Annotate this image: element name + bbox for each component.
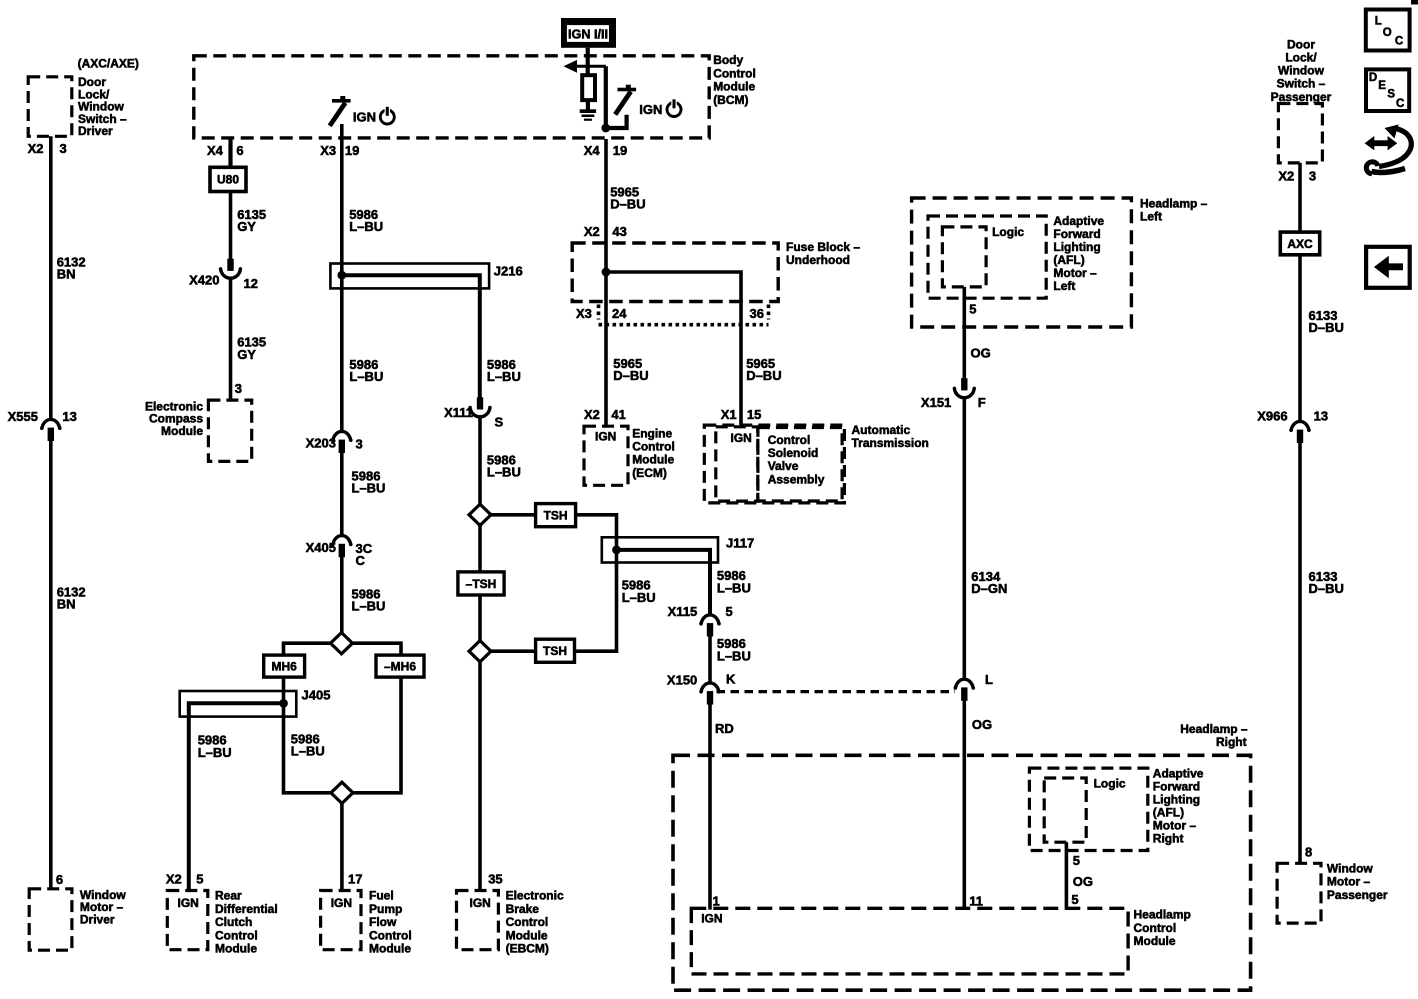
bus J117 tap to X115	[612, 546, 710, 614]
svg-text:IGN: IGN	[331, 896, 352, 910]
svg-text:Passenger: Passenger	[1327, 888, 1388, 902]
pin label X4 19	[584, 143, 628, 158]
label 5965 D-BU (above fuse block)	[610, 184, 645, 211]
label Electronic Brake Control Module (EBCM)	[506, 889, 564, 956]
label Fuse Block - Underhood	[786, 240, 860, 267]
svg-text:L–BU: L–BU	[352, 481, 386, 496]
pin label 5 (HCM)	[1071, 892, 1078, 907]
svg-text:D: D	[1369, 72, 1377, 84]
svg-text:D–BU: D–BU	[1309, 320, 1344, 335]
label Adaptive Forward Lighting (AFL) Motor - Right	[1153, 766, 1204, 845]
svg-text:GY: GY	[237, 219, 256, 234]
wire segment through J216	[340, 264, 344, 289]
module AFL Motor - Left dashed box	[928, 216, 1046, 298]
svg-text:(AFL): (AFL)	[1153, 805, 1184, 819]
pin label 35 (EBCM)	[488, 871, 502, 886]
label 6132 BN (lower)	[57, 585, 86, 612]
svg-text:Module: Module	[1134, 934, 1176, 948]
icon back arrow button	[1366, 247, 1410, 288]
label Rear Differential Clutch Control Module	[215, 889, 278, 956]
svg-text:Automatic: Automatic	[852, 423, 911, 437]
label 5965 D-BU (to ECM)	[613, 356, 648, 383]
wire 6132 BN driver switch to window motor driver	[49, 136, 53, 889]
junction dot X4:19 output	[601, 124, 610, 133]
module Headlamp Control Module dashed box with IGN	[691, 908, 1128, 974]
svg-text:Fuel: Fuel	[369, 889, 394, 903]
svg-text:D–BU: D–BU	[613, 368, 648, 383]
svg-text:11: 11	[969, 893, 983, 908]
label OG (above X151)	[971, 346, 991, 361]
svg-text:(AFL): (AFL)	[1053, 253, 1084, 267]
ground symbol in BCM	[580, 109, 596, 121]
wire through J117	[615, 537, 619, 562]
svg-text:5: 5	[969, 301, 976, 316]
label 6135 GY (lower)	[237, 335, 266, 362]
svg-text:J216: J216	[494, 264, 523, 279]
svg-text:Clutch: Clutch	[215, 915, 252, 929]
wire MH6 branch right	[353, 643, 402, 655]
svg-text:Module: Module	[369, 942, 411, 956]
bus J405 tap to rear diff clutch module	[189, 699, 288, 891]
option box -TSH	[458, 572, 504, 595]
connector X966 pin 13	[1257, 409, 1328, 443]
wire resistor to ground	[586, 100, 590, 110]
svg-text:Rear: Rear	[215, 889, 242, 903]
svg-text:IGN: IGN	[178, 896, 199, 910]
option box AXC	[1280, 232, 1319, 255]
module Door Lock/Window Switch - Driver dashed box	[28, 77, 72, 137]
svg-text:TSH: TSH	[543, 644, 567, 658]
label 5986 L-BU (below X115)	[717, 636, 751, 663]
wire BCM X4:6 to U80	[228, 138, 232, 167]
svg-text:5: 5	[1073, 853, 1080, 868]
pin label X2 3 (driver switch)	[28, 141, 67, 156]
wire splice to fuel pump module	[340, 803, 344, 890]
svg-text:3: 3	[356, 437, 363, 452]
label IGN with power icon (right switch)	[639, 99, 681, 117]
wire 5965 D-BU fuse to ECM	[604, 325, 608, 426]
svg-text:Passenger: Passenger	[1271, 90, 1332, 104]
dashed wire X150 K to X151 L	[717, 690, 956, 693]
svg-text:41: 41	[611, 407, 625, 422]
svg-text:E: E	[1378, 80, 1386, 92]
svg-text:L: L	[985, 672, 993, 687]
svg-text:L: L	[1375, 16, 1382, 28]
svg-text:1: 1	[713, 893, 720, 908]
label RD	[715, 721, 734, 736]
junction bar J216	[330, 264, 489, 289]
svg-text:O: O	[1383, 27, 1392, 39]
svg-text:Engine: Engine	[632, 426, 672, 440]
label Logic (right)	[1094, 777, 1126, 791]
pin label 6 (window motor driver)	[56, 872, 63, 887]
svg-text:IGN I/II: IGN I/II	[568, 28, 608, 42]
svg-text:Window: Window	[1278, 64, 1325, 78]
connector L (inline to X150 K)	[954, 672, 994, 701]
svg-text:OG: OG	[1073, 874, 1093, 889]
pin labels X3 24 36	[576, 306, 764, 321]
connector X203 pin 3	[306, 431, 363, 453]
svg-text:3: 3	[60, 141, 67, 156]
svg-text:Right: Right	[1153, 831, 1184, 845]
svg-text:Pump: Pump	[369, 902, 402, 916]
wire 6135 GY X420 to compass module	[229, 279, 233, 400]
svg-text:X3: X3	[320, 143, 336, 158]
pin label 5 (AFL left)	[969, 301, 976, 316]
svg-text:Adaptive: Adaptive	[1053, 214, 1104, 228]
connector X150 pin K	[667, 671, 736, 704]
svg-text:L–BU: L–BU	[717, 580, 751, 595]
svg-text:Forward: Forward	[1153, 779, 1200, 793]
svg-text:3: 3	[235, 381, 242, 396]
svg-text:Control: Control	[369, 928, 412, 942]
wire X111 to TSH splice	[478, 418, 482, 505]
svg-text:RD: RD	[715, 721, 734, 736]
option box -MH6	[376, 655, 424, 677]
svg-text:6: 6	[236, 143, 243, 158]
svg-text:Control: Control	[768, 433, 811, 447]
svg-text:Headlamp –: Headlamp –	[1180, 722, 1248, 736]
svg-text:(EBCM): (EBCM)	[506, 942, 549, 956]
svg-text:Adaptive: Adaptive	[1153, 766, 1204, 780]
label 5986 L-BU (X203-X405)	[352, 468, 386, 495]
svg-text:43: 43	[612, 224, 626, 239]
svg-text:MH6: MH6	[271, 659, 297, 673]
module Headlamp - Right dashed box	[673, 755, 1251, 990]
wire through J405	[282, 691, 286, 717]
pin label 8 (window motor passenger)	[1305, 844, 1312, 859]
wire MH6 to bottom join	[284, 677, 332, 793]
svg-text:8: 8	[1305, 844, 1312, 859]
module AFL Motor - Right dashed box	[1029, 768, 1147, 850]
pin label 17 (FPFCM)	[348, 871, 362, 886]
wire 6133 D-BU X966 to window motor passenger	[1298, 443, 1302, 864]
label J216	[494, 264, 523, 279]
svg-text:17: 17	[348, 871, 362, 886]
svg-text:Module: Module	[632, 453, 674, 467]
svg-text:D–BU: D–BU	[610, 197, 645, 212]
svg-text:X3: X3	[576, 306, 592, 321]
svg-text:–MH6: –MH6	[384, 659, 416, 673]
svg-text:OG: OG	[971, 346, 991, 361]
splice diamond (bottom of MH6 loop)	[331, 782, 353, 803]
wire passenger switch to AXC	[1298, 163, 1302, 235]
label Engine Control Module (ECM)	[632, 426, 675, 480]
svg-text:35: 35	[488, 871, 502, 886]
label Window Motor - Driver	[80, 888, 127, 927]
svg-text:Control: Control	[215, 928, 258, 942]
switch IGN (left, BCM)	[330, 96, 351, 126]
svg-text:Module: Module	[506, 928, 548, 942]
svg-text:X555: X555	[8, 409, 38, 424]
svg-text:(BCM): (BCM)	[713, 93, 748, 107]
module Door Lock/Window Switch - Passenger dashed box	[1278, 104, 1322, 163]
svg-text:IGN: IGN	[731, 431, 752, 445]
svg-text:X151: X151	[921, 395, 951, 410]
svg-text:Assembly: Assembly	[768, 472, 825, 486]
label Door Lock/Window Switch - Passenger	[1271, 37, 1332, 103]
splice diamond (bottom TSH)	[469, 641, 491, 662]
svg-text:Module: Module	[161, 424, 203, 438]
wire X115 to X150	[708, 636, 712, 682]
svg-text:X2: X2	[1278, 168, 1294, 183]
svg-text:L–BU: L–BU	[349, 369, 383, 384]
pin label 11 (HCM)	[969, 893, 983, 908]
svg-text:S: S	[1387, 89, 1395, 101]
svg-text:IGN: IGN	[470, 896, 491, 910]
label 6134 D-GN	[971, 569, 1007, 596]
label Automatic Transmission	[852, 423, 929, 450]
svg-text:X2: X2	[166, 871, 182, 886]
module Window Motor - Passenger dashed box	[1277, 863, 1321, 923]
svg-text:13: 13	[62, 409, 76, 424]
svg-text:X420: X420	[189, 273, 219, 288]
svg-text:X111: X111	[444, 405, 473, 420]
icon DESC button	[1366, 69, 1409, 111]
svg-text:Brake: Brake	[506, 902, 540, 916]
wire inside fuse block with branch	[602, 244, 741, 326]
svg-text:Control: Control	[506, 915, 549, 929]
svg-text:Electronic: Electronic	[506, 889, 564, 903]
wire 5986 L-BU BCM X3:19 down through J216	[340, 124, 344, 431]
label 6133 D-BU (lower)	[1309, 569, 1344, 596]
svg-text:3: 3	[1309, 168, 1316, 183]
terminal IGN dashed box in transmission	[716, 427, 758, 501]
svg-text:L–BU: L–BU	[487, 465, 521, 480]
svg-text:F: F	[978, 395, 986, 410]
pin label 3 (compass)	[235, 381, 242, 396]
svg-text:24: 24	[612, 306, 627, 321]
svg-text:BN: BN	[57, 267, 76, 282]
svg-text:IGN: IGN	[595, 429, 616, 443]
label Headlamp - Right	[1180, 722, 1248, 749]
svg-text:IGN: IGN	[639, 102, 662, 117]
wire OG logic right to HCM pin 5	[1065, 842, 1069, 909]
label Body Control Module (BCM)	[713, 53, 756, 107]
label 5986 L-BU (J405 tap)	[198, 733, 232, 760]
wire bottom TSH branch	[491, 563, 617, 652]
svg-text:D–BU: D–BU	[1309, 581, 1344, 596]
wire top TSH branch	[491, 515, 617, 538]
svg-text:Right: Right	[1216, 735, 1247, 749]
label OG (right of L)	[972, 717, 992, 732]
wire 5965 D-BU BCM X4:19 to fuse block	[604, 139, 608, 244]
svg-text:Valve: Valve	[768, 459, 799, 473]
label 5986 L-BU (J216 tap)	[487, 357, 521, 384]
svg-text:–TSH: –TSH	[466, 577, 497, 591]
label 5986 L-BU (J216 left below)	[349, 357, 383, 384]
svg-text:Flow: Flow	[369, 915, 397, 929]
svg-text:19: 19	[345, 143, 359, 158]
module Electronic Brake Control Module dashed box with IGN	[457, 891, 499, 950]
module Automatic Transmission outer dashed box	[704, 425, 844, 503]
label 5986 L-BU (above MH6 split)	[352, 586, 386, 613]
svg-text:X1: X1	[721, 407, 737, 422]
svg-text:L–BU: L–BU	[717, 648, 751, 663]
svg-text:Motor –: Motor –	[1053, 266, 1097, 280]
svg-text:Module: Module	[713, 80, 755, 94]
junction bar J117	[602, 537, 718, 562]
label Headlamp - Left	[1140, 196, 1208, 223]
svg-text:Transmission: Transmission	[852, 436, 929, 450]
label J117	[726, 535, 754, 550]
label Electronic Compass Module	[145, 399, 203, 438]
svg-text:L–BU: L–BU	[487, 369, 521, 384]
svg-text:Switch –: Switch –	[1277, 77, 1326, 91]
svg-text:Motor –: Motor –	[1153, 818, 1197, 832]
pin label X3 19	[320, 143, 359, 158]
wire 6133 D-BU AXC to X966	[1298, 255, 1302, 421]
wire 6134 D-GN X151 to L	[962, 399, 966, 678]
label Window Motor - Passenger	[1327, 862, 1388, 902]
label 6135 GY (upper)	[237, 207, 266, 234]
pin label X2 41	[584, 407, 626, 422]
svg-text:X203: X203	[306, 436, 336, 451]
svg-text:L–BU: L–BU	[291, 744, 325, 759]
svg-text:X150: X150	[667, 672, 697, 687]
svg-text:BN: BN	[57, 597, 76, 612]
connector X151 pin F	[921, 378, 986, 410]
svg-text:13: 13	[1314, 409, 1328, 424]
svg-text:X2: X2	[584, 407, 600, 422]
svg-text:L–BU: L–BU	[198, 745, 232, 760]
svg-text:X2: X2	[28, 141, 44, 156]
svg-text:Headlamp –: Headlamp –	[1140, 196, 1208, 210]
label 6133 D-BU (upper)	[1309, 308, 1344, 335]
svg-text:Fuse Block –: Fuse Block –	[786, 240, 860, 254]
pin label X2 5 (RDCCM)	[166, 871, 204, 886]
svg-text:J117: J117	[726, 535, 754, 550]
svg-text:Driver: Driver	[80, 913, 115, 927]
svg-text:Lighting: Lighting	[1053, 240, 1100, 254]
connector X405 pin 3C C	[306, 536, 373, 569]
wire 5965 D-BU fuse to transmission	[739, 325, 743, 425]
module Fuel Pump Flow Control Module dashed box with IGN	[321, 891, 361, 950]
connector X555 pin 13	[8, 409, 77, 441]
svg-text:X966: X966	[1257, 409, 1287, 424]
splice diamond (top of MH6 loop)	[331, 633, 353, 654]
label Logic (left)	[992, 225, 1024, 239]
label Control Solenoid Valve Assembly	[768, 433, 825, 487]
svg-text:C: C	[1396, 98, 1404, 110]
pin label X2 43	[584, 224, 627, 239]
pin label X4 6	[207, 143, 244, 158]
switch IGN (right, BCM)	[615, 85, 636, 115]
wire logic left to X151	[962, 287, 966, 379]
svg-text:Driver: Driver	[78, 124, 113, 138]
resistor in BCM	[582, 75, 595, 100]
svg-text:D–GN: D–GN	[971, 581, 1007, 596]
svg-text:Underhood: Underhood	[786, 253, 850, 267]
label IGN with power icon (left switch)	[353, 107, 394, 125]
svg-text:(ECM): (ECM)	[632, 466, 667, 480]
connector X111 pin S	[444, 397, 503, 429]
svg-text:15: 15	[747, 407, 761, 422]
label Headlamp Control Module	[1134, 908, 1191, 948]
icon reroute arrows	[1365, 125, 1412, 174]
label Adaptive Forward Lighting (AFL) Motor - Left	[1053, 214, 1104, 293]
option box TSH (top)	[536, 504, 576, 527]
svg-text:D–BU: D–BU	[746, 368, 781, 383]
connector X420 pin 12	[189, 259, 258, 291]
wire feed branch down to IGN switch output	[604, 66, 608, 128]
corner mark top right	[1411, 0, 1418, 5]
label (AXC/AXE) Door Lock/Window Switch - Driver	[78, 56, 139, 138]
svg-text:IGN: IGN	[353, 109, 376, 124]
label OG (AFL right)	[1073, 874, 1093, 889]
svg-text:X2: X2	[584, 224, 600, 239]
svg-text:U80: U80	[217, 173, 239, 187]
svg-text:Lighting: Lighting	[1153, 792, 1200, 806]
svg-text:Logic: Logic	[1094, 777, 1126, 791]
svg-text:5: 5	[1071, 892, 1078, 907]
svg-text:GY: GY	[237, 347, 256, 362]
svg-text:Control: Control	[713, 66, 756, 80]
svg-text:Door: Door	[1287, 37, 1315, 51]
pin label 5 (AFL right)	[1073, 853, 1080, 868]
svg-text:5: 5	[196, 871, 203, 886]
svg-text:C: C	[356, 553, 366, 568]
module Fuse Block - Underhood dashed box	[572, 243, 778, 302]
pin label X2 3 (passenger)	[1278, 168, 1316, 183]
junction bar J405	[180, 691, 297, 717]
wire main through -TSH	[478, 525, 482, 641]
pin label X1 15	[721, 407, 762, 422]
wire 6135 GY U80 to X420	[229, 192, 233, 260]
svg-text:Headlamp: Headlamp	[1134, 908, 1191, 922]
svg-text:Motor –: Motor –	[1327, 875, 1371, 889]
logic box (AFL right)	[1044, 778, 1086, 842]
label 5965 D-BU (to transmission)	[746, 356, 781, 383]
svg-text:Differential: Differential	[215, 902, 278, 916]
svg-text:Control: Control	[1134, 921, 1177, 935]
label 5986 L-BU (below X111)	[487, 452, 521, 479]
label Fuel Pump Flow Control Module	[369, 889, 412, 956]
svg-text:IGN: IGN	[701, 912, 722, 926]
module Control Solenoid Valve Assembly dashed box	[758, 428, 842, 502]
wire -MH6 to bottom join	[352, 677, 401, 793]
svg-text:Window: Window	[1327, 862, 1374, 876]
module Electronic Compass Module dashed box	[208, 400, 251, 461]
connector strip X3 dotted	[599, 305, 769, 325]
svg-text:AXC: AXC	[1287, 237, 1313, 251]
svg-text:TSH: TSH	[544, 508, 568, 522]
svg-text:6: 6	[56, 872, 63, 887]
module Window Motor - Driver dashed box	[29, 889, 72, 950]
svg-text:OG: OG	[972, 717, 992, 732]
option box MH6	[264, 655, 305, 677]
pin label 1 (HCM)	[713, 893, 720, 908]
svg-text:L–BU: L–BU	[349, 219, 383, 234]
module Rear Differential Clutch Control Module dashed box with IGN	[167, 891, 208, 950]
power feed label IGN I/II box	[561, 18, 616, 48]
svg-text:Forward: Forward	[1053, 227, 1100, 241]
svg-text:(AXC/AXE): (AXC/AXE)	[78, 56, 139, 70]
svg-text:S: S	[495, 414, 504, 429]
wire 5986 L-BU X203 to X405	[340, 453, 344, 535]
svg-text:Left: Left	[1053, 279, 1075, 293]
label 5986 L-BU (MH6 left branch)	[291, 731, 325, 758]
svg-text:X115: X115	[668, 604, 698, 619]
svg-text:J405: J405	[302, 687, 331, 702]
connector X115 pin 5	[668, 604, 733, 637]
splice diamond (top TSH)	[469, 504, 491, 525]
svg-text:K: K	[726, 671, 736, 686]
svg-text:12: 12	[244, 276, 258, 291]
label 5986 L-BU (below BCM)	[349, 207, 383, 234]
svg-text:X405: X405	[306, 540, 336, 555]
wire 5986 L-BU X405 to splice diamond	[340, 557, 344, 633]
